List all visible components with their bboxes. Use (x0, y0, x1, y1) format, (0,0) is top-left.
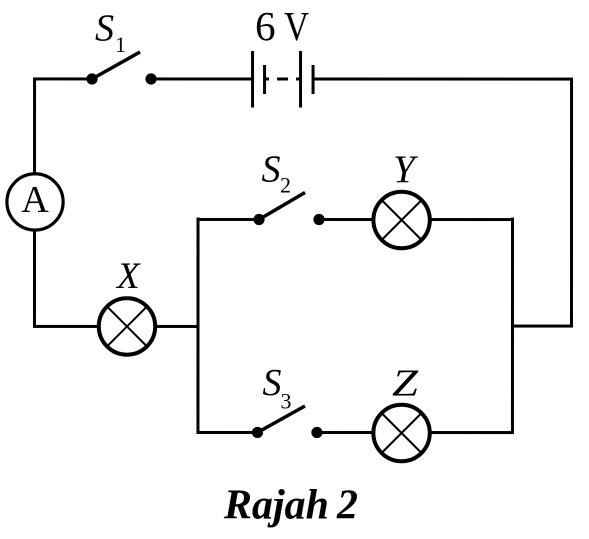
ammeter A (7, 174, 63, 230)
wire: S2 to lamp Y (319, 218, 373, 221)
wire: top-left corner down to ammeter (35, 79, 37, 173)
wire: S3 to lamp Z (317, 431, 373, 434)
lamp Y (373, 192, 429, 248)
svg-text:S: S (262, 362, 281, 404)
wire: lamp Y to right vertical (431, 218, 514, 221)
switch S2 (253, 192, 324, 225)
wire: lamp X to parallel junction node (156, 325, 198, 328)
wire: right vertical of parallel block (511, 218, 514, 435)
svg-text:2: 2 (336, 483, 358, 529)
wire: lamp Z to right vertical (431, 431, 514, 434)
lamp X (99, 298, 155, 354)
svg-text:6: 6 (255, 3, 276, 49)
wire: battery to top-right corner, down and to parallel block (313, 79, 572, 326)
svg-text:S: S (262, 148, 281, 190)
svg-text:S: S (95, 7, 114, 49)
wire: ammeter to lamp X (34, 230, 98, 326)
svg-text:V: V (284, 3, 309, 49)
svg-text:X: X (115, 256, 141, 297)
switch S1 (86, 52, 156, 85)
svg-text:Rajah: Rajah (223, 482, 329, 528)
wire: top-left corner to switch S1 (33, 77, 92, 80)
wire: Y branch from left vertical to S2 (197, 218, 260, 221)
svg-text:3: 3 (280, 388, 291, 413)
lamp Z (373, 405, 429, 461)
svg-text:1: 1 (115, 32, 126, 57)
svg-text:Z: Z (392, 363, 419, 405)
switch S3 (252, 406, 323, 438)
battery BT1 (6 V, two cells with dashed link) (253, 51, 314, 108)
svg-text:A: A (21, 179, 49, 221)
svg-text:2: 2 (280, 172, 291, 197)
wire: left vertical of parallel block (196, 217, 199, 434)
wire: S1 to battery (151, 77, 253, 80)
wire: Z branch from left vertical to S3 (196, 431, 257, 434)
